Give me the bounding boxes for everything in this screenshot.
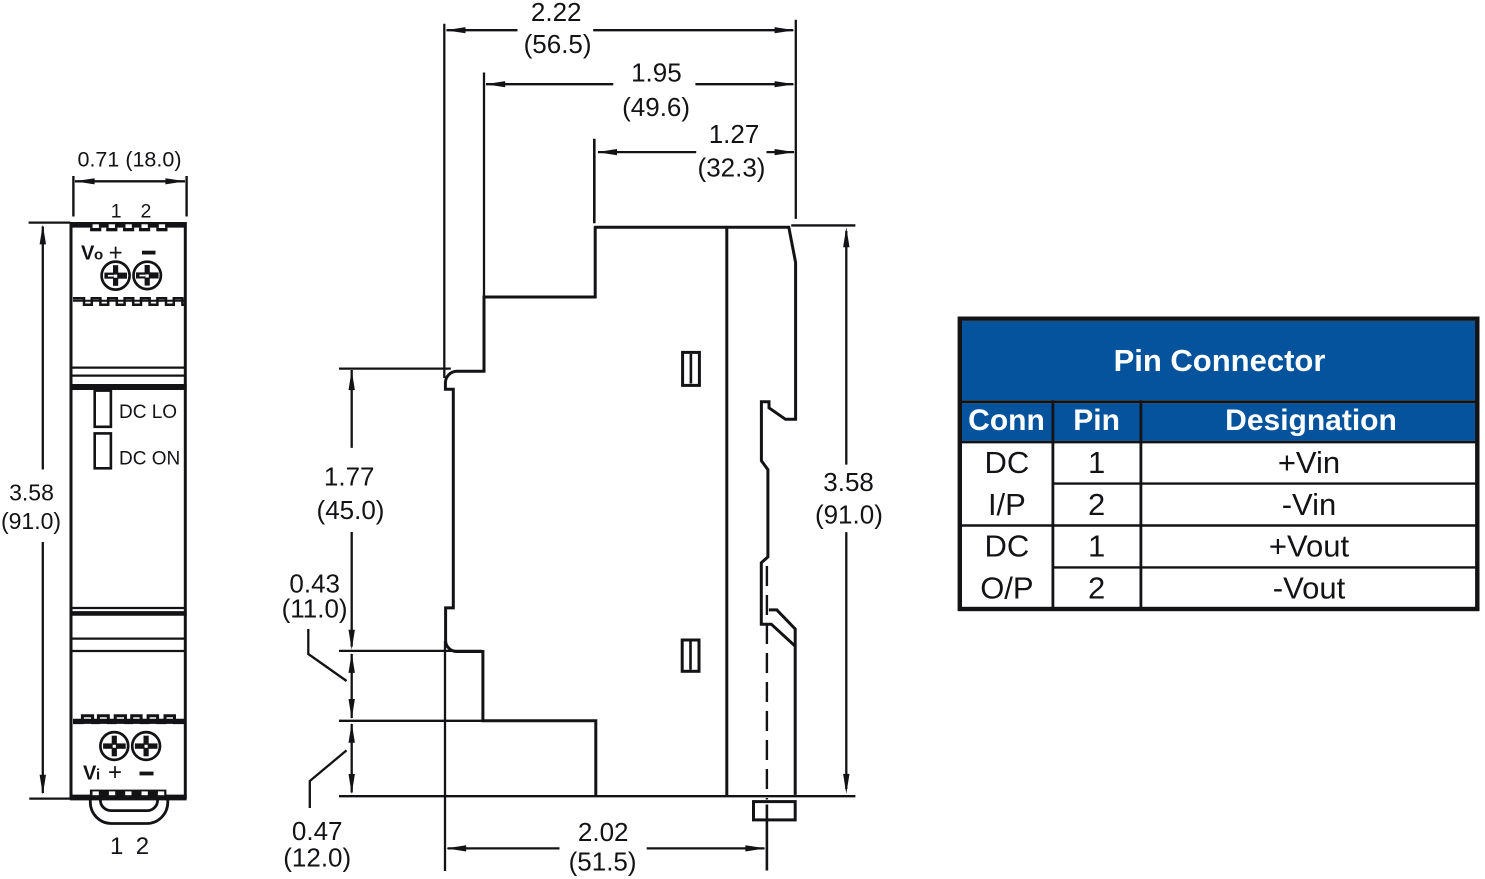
svg-text:I/P: I/P xyxy=(988,487,1026,522)
LED DC LO xyxy=(95,391,111,427)
dimension 2.22 (56.5) xyxy=(444,0,796,378)
side view bottom edge / base line xyxy=(339,795,855,797)
dimension 2.02 (51.5) xyxy=(445,641,765,877)
svg-text:3.58: 3.58 xyxy=(823,467,874,497)
svg-text:0.71 (18.0): 0.71 (18.0) xyxy=(78,148,182,172)
extension line below foot for 2.02 xyxy=(766,805,769,871)
svg-text:(51.5): (51.5) xyxy=(569,847,637,877)
table title band xyxy=(962,321,1477,400)
serrated band lower xyxy=(73,716,184,723)
svg-text:1: 1 xyxy=(1088,445,1105,480)
svg-text:DC: DC xyxy=(985,529,1030,564)
label Vo xyxy=(81,240,156,267)
svg-text:1: 1 xyxy=(110,833,123,860)
svg-text:2: 2 xyxy=(136,833,149,860)
svg-text:-Vin: -Vin xyxy=(1282,487,1337,522)
svg-text:2.02: 2.02 xyxy=(578,817,629,847)
svg-text:(91.0): (91.0) xyxy=(1,508,61,534)
svg-text:DC: DC xyxy=(985,445,1030,480)
dimension 3.58 (91.0) left xyxy=(1,223,70,799)
svg-text:-Vout: -Vout xyxy=(1273,570,1346,605)
svg-text:DC ON: DC ON xyxy=(119,448,180,469)
DIN rail foot xyxy=(754,802,796,820)
dimension 3.58 (91.0) right xyxy=(815,227,883,794)
DIN clip stirrup front xyxy=(90,799,168,824)
front panel divider lines upper xyxy=(70,368,187,387)
svg-text:+Vout: +Vout xyxy=(1269,529,1350,564)
hidden line (dashed) DIN clip xyxy=(766,566,768,800)
svg-text:2.22: 2.22 xyxy=(531,0,582,27)
svg-text:1: 1 xyxy=(1088,529,1105,564)
svg-text:1: 1 xyxy=(111,201,122,223)
svg-text:Pin Connector: Pin Connector xyxy=(1114,343,1326,378)
svg-text:o: o xyxy=(94,247,103,264)
svg-text:0.47: 0.47 xyxy=(292,816,343,846)
front top edge teeth xyxy=(90,224,167,231)
svg-text:(56.5): (56.5) xyxy=(524,29,592,59)
table header band xyxy=(962,403,1477,441)
pin labels top xyxy=(111,201,152,223)
table data text xyxy=(980,445,1349,605)
screw terminal Vi+ xyxy=(100,732,128,760)
table outer border xyxy=(960,319,1478,609)
serrated band upper xyxy=(73,298,184,305)
svg-text:O/P: O/P xyxy=(980,570,1033,605)
dimension 0.71 (18.0) xyxy=(73,148,186,217)
svg-text:+Vin: +Vin xyxy=(1278,445,1340,480)
dimension 0.47 (12.0) xyxy=(283,721,484,873)
label Vi xyxy=(83,759,154,786)
svg-text:(45.0): (45.0) xyxy=(317,495,385,525)
svg-text:i: i xyxy=(96,767,100,784)
svg-text:Designation: Designation xyxy=(1225,404,1397,437)
svg-text:(49.6): (49.6) xyxy=(622,92,690,122)
side view top edge extension xyxy=(791,224,855,226)
LED DC ON xyxy=(95,433,111,468)
table grid lines xyxy=(960,400,1478,403)
table header text xyxy=(968,343,1397,437)
svg-text:V: V xyxy=(81,243,95,265)
screw terminal Vo+ xyxy=(102,262,130,290)
svg-text:(12.0): (12.0) xyxy=(283,843,351,873)
dimension 1.95 (49.6) xyxy=(484,58,795,297)
front bottom edge teeth xyxy=(90,790,166,796)
screw terminal Vo- xyxy=(134,262,161,289)
dimension 1.27 (32.3) xyxy=(594,119,794,223)
svg-text:V: V xyxy=(83,763,97,785)
dimension 0.43 (11.0) xyxy=(282,569,482,720)
screw terminal Vi- xyxy=(132,732,160,760)
svg-text:Pin: Pin xyxy=(1073,404,1120,437)
pin labels bottom xyxy=(110,833,149,860)
svg-text:1.95: 1.95 xyxy=(631,58,682,88)
front view body outline xyxy=(70,222,187,799)
front panel divider lines lower xyxy=(70,608,187,651)
pin connector table xyxy=(960,319,1478,609)
vent slot lower xyxy=(682,640,699,671)
svg-text:1.27: 1.27 xyxy=(709,119,760,149)
dimension 1.77 (45.0) xyxy=(317,369,451,650)
svg-text:Conn: Conn xyxy=(968,404,1045,437)
svg-text:+: + xyxy=(108,759,122,786)
svg-text:3.58: 3.58 xyxy=(9,479,54,505)
side view body outline xyxy=(445,227,795,797)
svg-text:(11.0): (11.0) xyxy=(282,594,348,624)
svg-text:(32.3): (32.3) xyxy=(698,153,766,183)
svg-text:2: 2 xyxy=(1088,570,1105,605)
svg-text:(91.0): (91.0) xyxy=(815,500,883,530)
svg-text:DC LO: DC LO xyxy=(119,402,177,423)
vent slot upper xyxy=(683,352,700,385)
svg-text:1.77: 1.77 xyxy=(324,462,375,492)
svg-text:2: 2 xyxy=(1088,487,1105,522)
svg-text:2: 2 xyxy=(140,201,151,223)
